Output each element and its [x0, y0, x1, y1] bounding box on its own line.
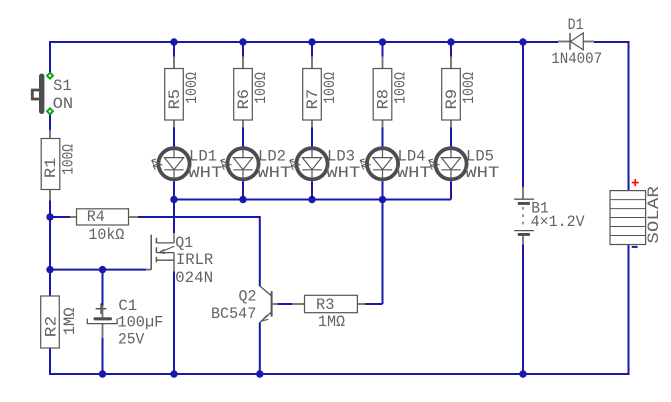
svg-text:100Ω: 100Ω: [321, 72, 339, 104]
svg-text:25V: 25V: [118, 331, 145, 349]
svg-text:WHT: WHT: [326, 164, 360, 182]
svg-text:R9: R9: [443, 89, 461, 110]
svg-text:10kΩ: 10kΩ: [88, 226, 124, 244]
svg-text:R3: R3: [316, 296, 334, 314]
svg-text:100Ω: 100Ω: [392, 72, 410, 104]
svg-text:Q1: Q1: [175, 234, 193, 252]
svg-text:R2: R2: [43, 316, 61, 337]
svg-text:1N4007: 1N4007: [551, 50, 602, 68]
svg-text:S1: S1: [53, 77, 72, 95]
svg-text:100Ω: 100Ω: [60, 144, 78, 175]
svg-text:WHT: WHT: [465, 164, 499, 182]
svg-text:R6: R6: [235, 89, 253, 110]
svg-text:1MΩ: 1MΩ: [61, 307, 79, 335]
svg-text:100Ω: 100Ω: [460, 72, 478, 104]
svg-text:R7: R7: [304, 89, 322, 110]
svg-text:LD4: LD4: [398, 147, 426, 165]
svg-text:R5: R5: [166, 89, 184, 110]
svg-text:LD5: LD5: [466, 147, 494, 165]
svg-text:R4: R4: [87, 208, 105, 226]
svg-text:R1: R1: [42, 158, 60, 179]
svg-text:Q2: Q2: [239, 287, 257, 305]
svg-text:WHT: WHT: [397, 164, 431, 182]
svg-text:R8: R8: [375, 89, 393, 110]
svg-text:WHT: WHT: [257, 164, 291, 182]
svg-text:4×1.2V: 4×1.2V: [531, 213, 586, 231]
svg-text:1MΩ: 1MΩ: [318, 313, 345, 331]
svg-text:IRLR: IRLR: [176, 251, 213, 269]
svg-text:LD2: LD2: [258, 147, 286, 165]
svg-text:D1: D1: [568, 16, 584, 34]
svg-text:024N: 024N: [175, 269, 213, 287]
svg-text:LD3: LD3: [327, 147, 355, 165]
svg-text:C1: C1: [118, 297, 137, 315]
svg-text:100Ω: 100Ω: [183, 72, 201, 104]
svg-text:ON: ON: [53, 95, 73, 113]
svg-text:WHT: WHT: [188, 164, 222, 182]
svg-text:SOLAR: SOLAR: [645, 186, 663, 244]
svg-text:100µF: 100µF: [117, 314, 163, 332]
svg-text:LD1: LD1: [189, 147, 217, 165]
svg-text:100Ω: 100Ω: [252, 72, 270, 104]
svg-text:BC547: BC547: [211, 305, 256, 323]
